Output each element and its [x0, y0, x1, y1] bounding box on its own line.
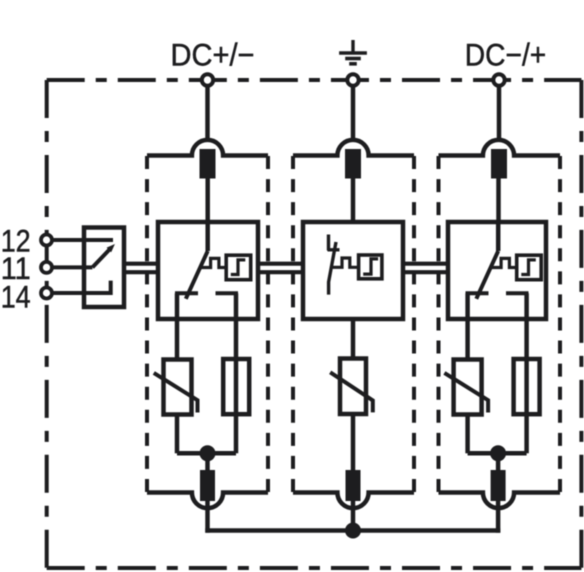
- module 3 bottom plug contact: [491, 470, 506, 501]
- module 1 varistor lower lead: [175, 414, 180, 453]
- wire module 3 plug to PE bus: [496, 500, 501, 533]
- terminal circle ground: [347, 74, 358, 85]
- module 3 dashed box sides: [439, 156, 561, 492]
- module 2 varistor diagonal: [330, 372, 373, 412]
- terminal circle DC+/-: [202, 74, 213, 85]
- wire terminal 14 to contact: [52, 281, 111, 293]
- module 1 thermal disconnector step symbol: [231, 260, 246, 275]
- module 3 top edge with plug arc: [439, 140, 561, 156]
- wire terminal DC-/+ to module 3 plug: [497, 87, 502, 142]
- wire module 1 plug to switch box: [205, 178, 210, 222]
- terminal circle 12: [41, 235, 52, 246]
- module 3 disconnector: left contact bar: [466, 291, 489, 295]
- svg-text:DC+/−: DC+/−: [171, 36, 255, 72]
- module 1 thermal trip step link: [201, 258, 226, 267]
- module 3 bottom edge with plug arc: [439, 493, 561, 509]
- module 3 junction node: [490, 445, 506, 461]
- module 3 varistor lower lead: [465, 414, 470, 453]
- module 1 disconnector: left contact bar: [175, 291, 198, 295]
- wire module 3 plug to switch box: [496, 178, 501, 222]
- module 3 fuse body: [514, 359, 540, 414]
- PE bus: [205, 528, 500, 533]
- linkage module 2 to module 3 (double line): [403, 264, 448, 273]
- module 3 disconnector: switch arm: [476, 251, 498, 299]
- module 1 disconnector: switch arm: [186, 251, 208, 299]
- module 2 thermal disconnector step symbol: [363, 259, 378, 274]
- wire ground terminal to module 2 plug: [351, 87, 356, 142]
- module 1 dashed box sides: [147, 156, 268, 492]
- module 1 disconnector: feed wire: [205, 222, 210, 251]
- module 2 switch box: [303, 222, 403, 319]
- module 2 thermal disconnector box: [359, 255, 382, 279]
- module 3 junction bar: [468, 451, 527, 456]
- module 1 top plug contact: [200, 149, 216, 179]
- module 1 right leg (through fuse): [234, 293, 239, 453]
- svg-text:DC−/+: DC−/+: [465, 36, 547, 72]
- module 2 wire varistor to bottom plug: [351, 414, 356, 471]
- module 3 thermal disconnector step symbol: [521, 260, 536, 275]
- module 3 varistor body: [454, 360, 482, 415]
- wire module 2 plug to PE bus: [351, 500, 356, 531]
- changeover contact arm arrowhead: [107, 244, 115, 252]
- module 2 disconnector: fixed stub: [327, 235, 330, 251]
- module 1 bottom plug contact: [200, 470, 215, 501]
- ground symbol bar 1: [339, 51, 367, 55]
- module 2 bottom plug contact: [346, 470, 361, 501]
- terminal circle 11: [41, 262, 52, 273]
- module 2 varistor body: [340, 359, 366, 415]
- module 3 wire node to bottom plug: [496, 453, 501, 471]
- outer enclosure dash-dot border: [47, 80, 582, 568]
- changeover contact arm: [92, 250, 109, 268]
- wire module 1 plug to PE bus: [205, 500, 210, 533]
- module 2 top edge with plug arc: [293, 140, 414, 156]
- module 1 thermal disconnector box: [226, 255, 251, 280]
- module 2 bottom edge with plug arc: [293, 493, 414, 509]
- module 2 disconnector: contact tick: [328, 248, 340, 251]
- svg-text:14: 14: [1, 279, 31, 315]
- module 3 left leg (to varistor): [465, 293, 470, 360]
- wire terminal DC+/- to module 1 plug: [205, 87, 210, 142]
- ground symbol bar 2: [345, 57, 361, 61]
- module 1 fuse body: [223, 359, 249, 414]
- module 3 switch box: [448, 222, 546, 319]
- module 1 top edge with plug arc: [147, 140, 268, 156]
- linkage module 1 to module 2 (double line): [258, 264, 303, 273]
- module 3 top plug contact: [491, 149, 507, 179]
- module 3 thermal disconnector box: [517, 255, 542, 280]
- module 2 dashed box sides: [293, 156, 414, 492]
- module 3 disconnector: feed wire: [496, 222, 501, 251]
- remote signalling contact box: [84, 228, 124, 308]
- module 2 wire switch box to varistor: [351, 319, 356, 359]
- wire terminal 12 to contact: [52, 238, 113, 242]
- module 3 varistor diagonal: [444, 373, 488, 413]
- linkage signal box to module 1 (double line): [124, 264, 158, 273]
- wire module 2 plug to switch box: [351, 178, 356, 222]
- ground symbol stem: [351, 40, 354, 53]
- module 1 varistor body: [164, 360, 192, 415]
- module 3 right leg (through fuse): [524, 293, 529, 453]
- module 1 junction node: [200, 445, 216, 461]
- PE bus node: [345, 523, 361, 539]
- module 1 wire node to bottom plug: [205, 453, 210, 471]
- module 2 top plug contact: [345, 149, 361, 179]
- module 1 bottom edge with plug arc: [147, 493, 268, 509]
- wire terminal 11 to contact pivot: [52, 265, 92, 269]
- module 1 varistor diagonal: [154, 373, 198, 413]
- module 1 switch box: [158, 222, 258, 319]
- terminal circle 14: [41, 288, 52, 299]
- ground symbol bar 3: [349, 62, 357, 66]
- module 2 disconnector: switch arm: [329, 242, 336, 295]
- module 3 disconnector: right contact bar: [506, 291, 529, 295]
- module 1 left leg (to varistor): [175, 293, 180, 360]
- module 3 thermal trip step link: [491, 258, 516, 267]
- module 1 junction bar: [177, 451, 236, 456]
- terminal circle DC-/+: [493, 74, 504, 85]
- module 2 thermal trip step link: [331, 258, 358, 267]
- module 1 disconnector: right contact bar: [216, 291, 239, 295]
